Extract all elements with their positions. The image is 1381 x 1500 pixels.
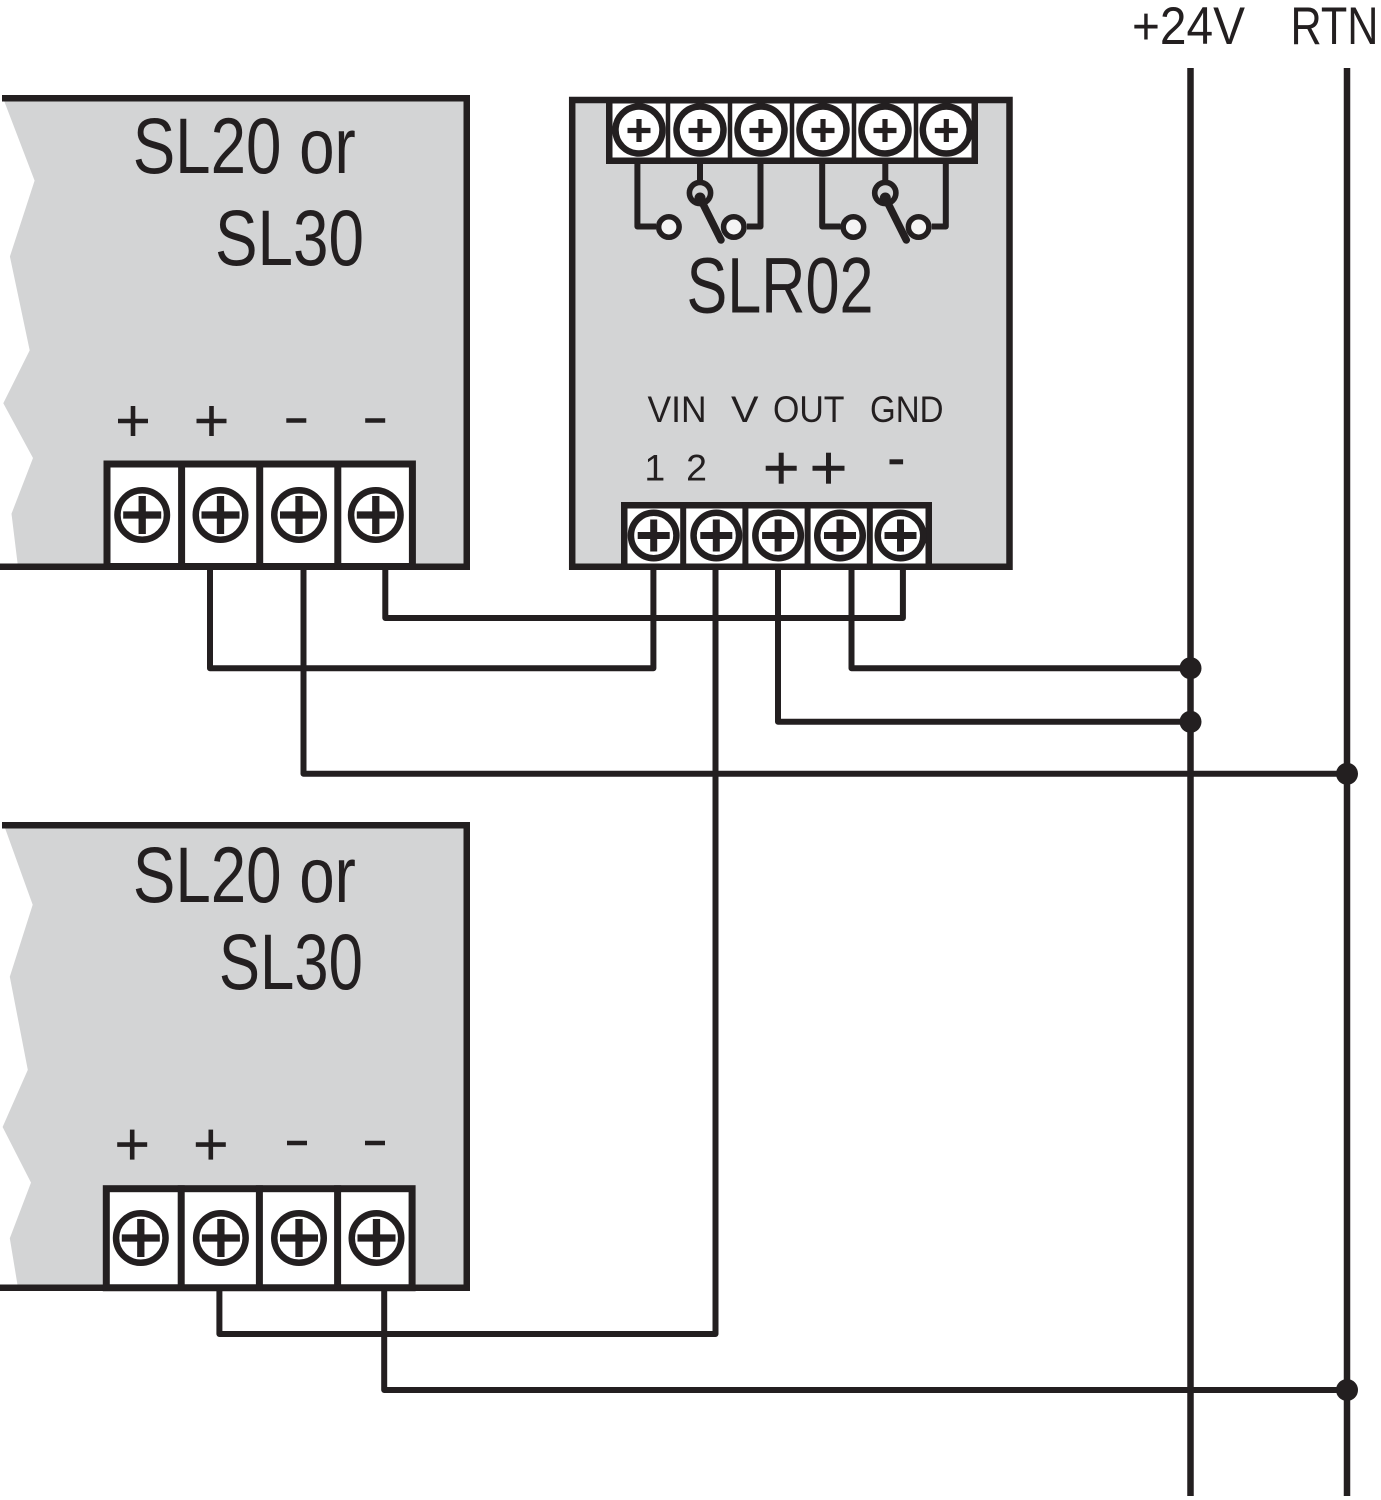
SLR02 bottom screw 2 (VIN2) <box>694 513 740 559</box>
relay 1 lever <box>700 198 721 240</box>
SLR02 top screw 3 <box>738 107 785 154</box>
fixture SL20/SL30 #2 body <box>0 822 470 1291</box>
svg-text:SL20 or: SL20 or <box>133 830 356 919</box>
relay 2 NC branch wire <box>822 162 840 227</box>
svg-text:+24V: +24V <box>1132 0 1246 56</box>
relay 2 pivot <box>875 182 896 203</box>
SLR02 bottom screw 5 (GND) <box>878 513 924 559</box>
svg-text:RTN: RTN <box>1291 0 1379 56</box>
SLR02 top screw 4 <box>800 107 847 154</box>
SLR02 top terminal strip <box>609 97 975 164</box>
wire: SLR02 VIN2 to box2 terminal 2 <box>219 567 715 1334</box>
wire RTN bus vertical <box>1344 68 1351 1496</box>
junction dot on +24V (row 2) <box>1180 657 1202 679</box>
relay 2 lever <box>885 198 906 240</box>
screw terminal 3 (box 2) <box>274 1213 324 1263</box>
SLR02 top screw 2 <box>677 107 724 154</box>
relay module SLR02 body <box>572 100 1009 567</box>
wire: SLR02 V OUT + (4) to +24V <box>852 567 1191 668</box>
screw terminal 3 (box 1) <box>274 490 324 540</box>
relay 1 NO branch wire <box>747 162 761 227</box>
relay 1 pivot <box>689 182 710 203</box>
junction dot on +24V (row 3) <box>1180 711 1202 733</box>
SLR02 bottom screw 1 (VIN1) <box>631 513 677 559</box>
relay 1 common wire <box>697 162 703 181</box>
SLR02 top screw 5 <box>862 107 909 154</box>
relay 2 NC contact <box>843 217 864 238</box>
junction dot on RTN (bottom) <box>1336 1379 1358 1401</box>
svg-text:GND: GND <box>870 388 944 430</box>
screw terminal 4 (box 1) <box>351 490 401 540</box>
relay 2 NO contact <box>908 217 929 238</box>
SLR02 bottom terminal strip <box>624 502 929 570</box>
terminal polarity labels + + - - (box 2) <box>117 1130 385 1160</box>
svg-text:SL20 or: SL20 or <box>133 101 356 190</box>
relay 2 common wire <box>882 162 888 181</box>
svg-text:1: 1 <box>644 447 665 489</box>
wire +24V bus vertical <box>1187 68 1194 1496</box>
svg-text:SLR02: SLR02 <box>687 240 874 329</box>
wire: box1 terminal 4 to SLR02 GND <box>385 567 903 618</box>
screw terminal 1 (box 2) <box>116 1213 166 1263</box>
svg-text:2: 2 <box>686 447 707 489</box>
screw terminal 4 (box 2) <box>352 1213 402 1263</box>
svg-text:OUT: OUT <box>773 388 845 430</box>
junction dot on RTN (row 4) <box>1336 763 1358 785</box>
SLR02 bottom screw 3 (V OUT +) <box>755 513 801 559</box>
screw terminal 2 (box 2) <box>196 1213 246 1263</box>
wire: SLR02 V OUT + (3) to +24V <box>778 567 1191 722</box>
relay 1 NO contact <box>724 217 745 238</box>
SLR02 polarity marks + + - <box>766 453 903 484</box>
screw terminal 1 (box 1) <box>117 490 167 540</box>
svg-text:SL30: SL30 <box>219 917 363 1006</box>
fixture SL20/SL30 #1 body <box>0 95 470 570</box>
wire: box1 terminal 3 to RTN <box>304 567 1348 774</box>
screw terminal 2 (box 1) <box>196 490 246 540</box>
relay 2 NO branch wire <box>932 162 946 227</box>
svg-text:SL30: SL30 <box>215 193 364 282</box>
svg-text:V: V <box>731 388 759 430</box>
SLR02 top screw 1 <box>616 107 663 154</box>
relay 1 NC branch wire <box>637 162 656 227</box>
terminal block (box 2) <box>106 1185 412 1291</box>
SLR02 bottom screw 4 (V OUT +) <box>817 513 863 559</box>
terminal block (box 1) <box>107 461 412 571</box>
SLR02 top screw 6 <box>923 107 970 154</box>
wire: box1 terminal 2 to SLR02 VIN1 <box>210 567 653 668</box>
svg-text:VIN: VIN <box>648 388 707 430</box>
relay 1 NC contact <box>659 217 680 238</box>
wire: box2 terminal 4 to RTN <box>384 1289 1347 1390</box>
terminal polarity labels + + - - (box 1) <box>118 406 385 436</box>
